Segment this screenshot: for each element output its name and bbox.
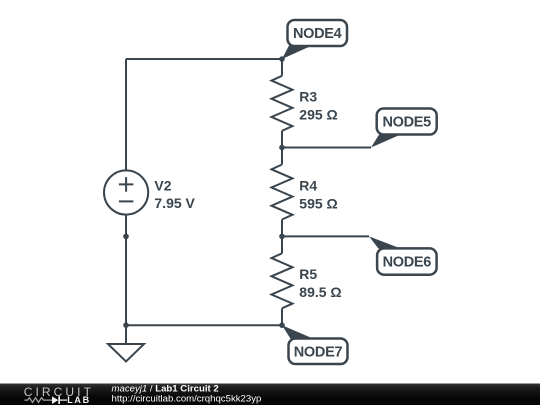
wire bottom horizontal (node7)	[126, 324, 282, 326]
svg-text:http://circuitlab.com/crqhqc5k: http://circuitlab.com/crqhqc5kk23yp	[112, 393, 262, 404]
resistor R3	[272, 76, 293, 131]
V2 plus sign	[119, 177, 133, 192]
svg-text:V2: V2	[154, 177, 171, 193]
wire top horizontal (node4)	[126, 58, 282, 60]
svg-text:595 Ω: 595 Ω	[299, 195, 337, 211]
node NODE4 flag	[282, 20, 347, 59]
wire right rail seg3	[281, 220, 283, 254]
wire right rail seg2	[281, 131, 283, 165]
svg-text:NODE6: NODE6	[383, 255, 432, 271]
wire left rail upper	[125, 59, 127, 171]
svg-text:R3: R3	[299, 89, 317, 105]
wire right rail seg1	[281, 59, 283, 76]
wire node6 branch	[282, 235, 369, 237]
logo diode	[60, 399, 67, 401]
V2 minus sign	[119, 200, 133, 202]
svg-text:R5: R5	[299, 266, 317, 282]
node NODE6 flag	[369, 236, 437, 274]
voltage source V2 circle	[104, 170, 148, 214]
resistor R4	[272, 165, 293, 220]
svg-text:NODE5: NODE5	[382, 115, 431, 131]
svg-text:LAB: LAB	[67, 395, 91, 405]
resistor R5	[272, 253, 293, 308]
svg-text:7.95 V: 7.95 V	[154, 195, 195, 211]
wire node5 branch	[282, 147, 371, 149]
junction dot left bottom	[123, 322, 129, 328]
logo resistor zigzag	[24, 398, 52, 403]
junction dot node4	[279, 56, 285, 62]
svg-text:295 Ω: 295 Ω	[299, 107, 337, 123]
node NODE5 flag	[371, 109, 437, 148]
svg-text:89.5 Ω: 89.5 Ω	[299, 284, 341, 300]
svg-text:NODE4: NODE4	[293, 26, 342, 42]
ground stem wire	[125, 325, 127, 344]
ground symbol	[108, 344, 144, 362]
junction dot left mid	[123, 234, 129, 240]
wire right rail seg4	[281, 308, 283, 325]
junction dot node6	[279, 234, 285, 240]
junction dot node5	[279, 145, 285, 151]
svg-text:R4: R4	[299, 177, 317, 193]
wire left rail lower	[125, 215, 127, 326]
junction dot node7	[279, 322, 285, 328]
node NODE7 flag	[282, 325, 348, 364]
svg-text:NODE7: NODE7	[294, 345, 343, 361]
